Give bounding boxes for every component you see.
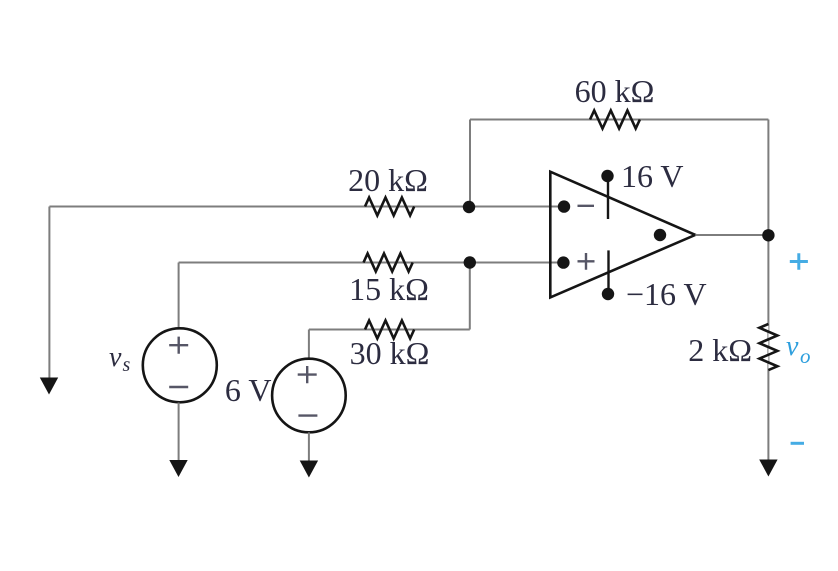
source 6V circle xyxy=(272,359,346,433)
svg-text:vo: vo xyxy=(786,331,810,368)
op-amp U1 triangle xyxy=(550,172,695,298)
plus inside vs xyxy=(169,337,188,354)
minus inside vs xyxy=(169,386,188,388)
svg-text:60 kΩ: 60 kΩ xyxy=(575,73,655,109)
svg-text:15 kΩ: 15 kΩ xyxy=(349,271,429,307)
supply line -16V xyxy=(607,250,609,294)
op-amp plus label xyxy=(578,253,595,270)
svg-text:6 V: 6 V xyxy=(225,372,272,408)
wire: 30k right vertical up to node xyxy=(469,263,471,330)
wire: non-inverting input row xyxy=(179,262,564,264)
wire: 6V bottom vertical xyxy=(308,432,310,461)
node: non-inverting input xyxy=(557,256,569,268)
wire: output xyxy=(695,234,768,236)
resistor R 15k zigzag xyxy=(364,254,413,272)
svg-text:vs: vs xyxy=(109,342,130,376)
ground arrow output xyxy=(759,460,777,477)
wire: inverting input row xyxy=(49,206,564,208)
node: +16V terminal xyxy=(601,170,613,182)
resistor R 20k zigzag xyxy=(365,198,414,216)
wire: feedback left vertical xyxy=(469,120,471,208)
node: output xyxy=(762,229,774,241)
ground arrow left xyxy=(40,378,58,395)
node: junction 20k/feedback xyxy=(463,201,475,213)
ground arrow 6V xyxy=(300,461,318,478)
svg-text:16 V: 16 V xyxy=(621,158,684,194)
plus inside 6V xyxy=(298,366,317,383)
node: output inside triangle xyxy=(654,229,666,241)
minus inside 6V xyxy=(298,414,317,416)
wire: left down vertical xyxy=(48,207,50,380)
svg-text:2 kΩ: 2 kΩ xyxy=(688,332,752,368)
source vs circle xyxy=(143,328,217,402)
resistor R 30k zigzag xyxy=(365,321,414,339)
supply line +16V xyxy=(607,176,609,219)
wire: top feedback horizontal xyxy=(470,119,768,121)
wire: output down vertical xyxy=(767,235,769,461)
svg-text:−16 V: −16 V xyxy=(626,276,707,312)
wire: vs bottom vertical xyxy=(178,403,180,462)
svg-text:20 kΩ: 20 kΩ xyxy=(348,162,428,198)
label plus output xyxy=(790,253,808,269)
node: inverting input xyxy=(558,200,570,212)
wire: vs source top vertical xyxy=(178,263,180,329)
node: junction 15k/30k xyxy=(464,256,476,268)
node: -16V terminal xyxy=(602,288,614,300)
svg-text:30 kΩ: 30 kΩ xyxy=(350,335,430,371)
wire: 30k row xyxy=(309,329,470,331)
ground arrow vs xyxy=(169,460,187,477)
op-amp minus label xyxy=(578,205,595,207)
resistor R 2k zigzag vertical xyxy=(759,324,777,370)
wire: feedback right vertical xyxy=(767,120,769,236)
resistor R 60k zigzag xyxy=(590,111,640,129)
label minus output xyxy=(791,442,804,445)
wire: 6V source top vertical xyxy=(308,330,310,360)
